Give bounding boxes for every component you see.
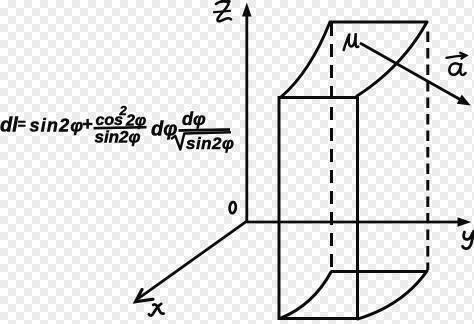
y-axis label y — [463, 231, 474, 249]
fraction 2 bar — [179, 130, 231, 131]
hidden right edge (dashed) — [426, 32, 429, 271]
bottom face back edge — [331, 270, 427, 273]
box front-bottom edge — [278, 317, 359, 320]
svg-text:+: + — [82, 114, 93, 134]
vector a — [360, 43, 471, 106]
y-axis — [247, 217, 471, 226]
top face back edge — [330, 21, 428, 24]
box front-right edge — [356, 97, 359, 319]
svg-text:sin2φ: sin2φ — [30, 116, 85, 136]
point label mu — [344, 34, 359, 50]
top face right curve — [357, 22, 427, 96]
bottom face left curve — [281, 272, 331, 318]
fraction 1 bar — [94, 127, 147, 128]
vector a label — [447, 53, 467, 75]
radical sign — [171, 132, 231, 149]
box front-top edge — [278, 96, 358, 99]
bottom face right curve — [358, 271, 427, 319]
svg-text:=: = — [18, 116, 26, 132]
x-axis label x — [149, 304, 164, 316]
svg-text:sin2φ: sin2φ — [186, 134, 234, 153]
top face left curve — [281, 22, 330, 97]
z-axis — [242, 3, 252, 222]
svg-text:sin2φ: sin2φ — [95, 128, 141, 147]
hidden left edge (dashed) — [330, 23, 333, 271]
svg-text:dl: dl — [0, 115, 18, 137]
z-axis label z — [214, 0, 231, 21]
origin label 0 — [229, 202, 236, 214]
x-axis — [136, 221, 248, 302]
svg-text:dφ: dφ — [182, 109, 206, 129]
box front-left edge — [278, 97, 281, 319]
